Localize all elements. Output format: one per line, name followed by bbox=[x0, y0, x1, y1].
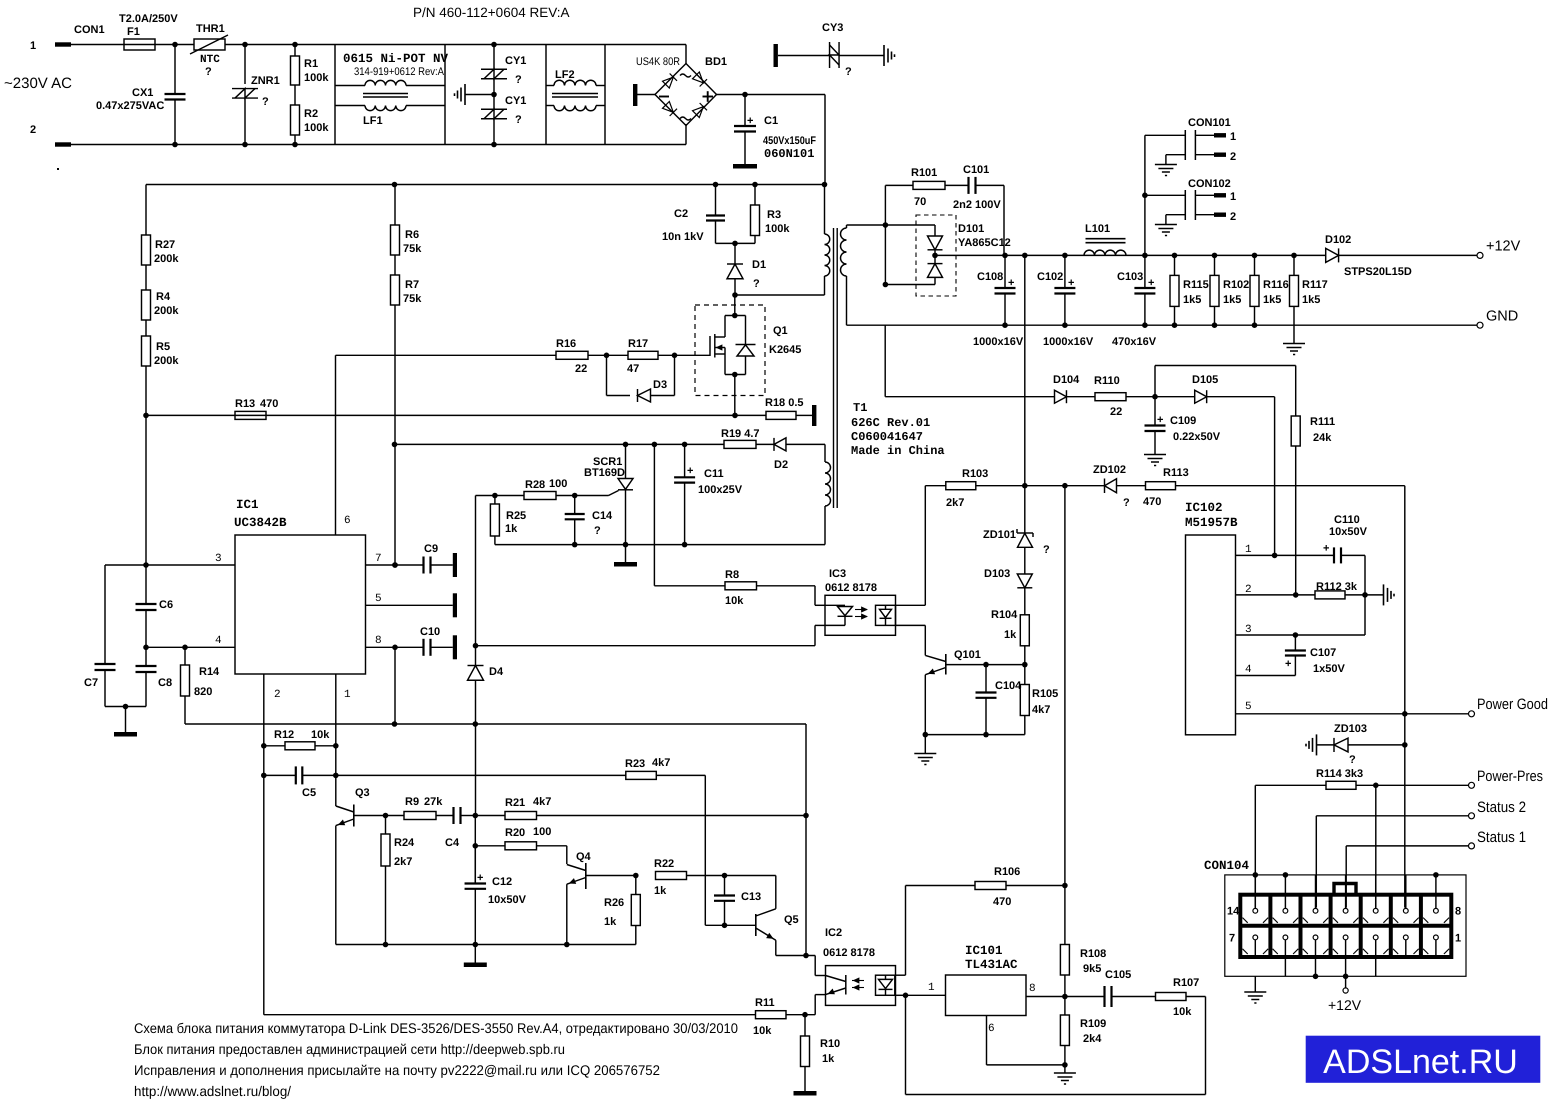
svg-text:R103: R103 bbox=[962, 468, 988, 480]
svg-text:?: ? bbox=[753, 278, 760, 290]
wire R20 to Q4 bbox=[537, 845, 567, 847]
svg-text:7: 7 bbox=[1229, 933, 1235, 945]
thermistor THR1 bbox=[194, 39, 225, 50]
svg-text:1k5: 1k5 bbox=[1223, 294, 1241, 306]
svg-text:C9: C9 bbox=[424, 543, 438, 555]
wire Q4 emitter down bbox=[566, 884, 568, 944]
wire HV+ bus bbox=[146, 184, 825, 186]
resistor R7 75k bbox=[394, 255, 396, 275]
ground bar of R10 bbox=[794, 1091, 817, 1096]
svg-text:LF1: LF1 bbox=[363, 115, 383, 127]
svg-text:C107: C107 bbox=[1310, 647, 1336, 659]
svg-text:F1: F1 bbox=[127, 26, 140, 38]
svg-text:100k: 100k bbox=[304, 72, 329, 84]
wire IC101 pin 8 bbox=[1026, 996, 1105, 998]
svg-text:UC3842B: UC3842B bbox=[234, 516, 287, 530]
svg-text:STPS20L15D: STPS20L15D bbox=[1344, 266, 1412, 278]
svg-text:27k: 27k bbox=[424, 796, 443, 808]
svg-text:THR1: THR1 bbox=[196, 23, 225, 35]
wire FB rail y1014 bbox=[264, 1014, 756, 1016]
svg-text:R19 4.7: R19 4.7 bbox=[721, 428, 760, 440]
connector CON104 cell chamfers bbox=[1243, 918, 1248, 923]
connector CON104 key tab bbox=[1334, 884, 1356, 895]
resistor R13 470 bbox=[235, 411, 266, 419]
svg-text:C103: C103 bbox=[1117, 271, 1143, 283]
svg-text:Made in China: Made in China bbox=[851, 444, 945, 458]
svg-text:+: + bbox=[477, 872, 483, 884]
svg-text:US4K 80R: US4K 80R bbox=[636, 56, 680, 68]
svg-text:Power Good: Power Good bbox=[1477, 696, 1548, 713]
svg-text:2: 2 bbox=[274, 689, 281, 701]
svg-text:R115: R115 bbox=[1183, 279, 1209, 291]
svg-text:R106: R106 bbox=[994, 866, 1020, 878]
svg-text:470x16V: 470x16V bbox=[1112, 336, 1157, 348]
wire R11 to IC2 bbox=[786, 1014, 815, 1016]
ground of Q101 rail bbox=[924, 735, 926, 754]
wire Q5 to IC2 bbox=[776, 955, 815, 957]
resistor R11 10k bbox=[756, 1011, 787, 1019]
svg-text:?: ? bbox=[1123, 497, 1130, 509]
ground bar of C7/C8 bbox=[125, 707, 127, 733]
wire bridge output to C1 and T1 bbox=[717, 94, 826, 96]
terminal bar at C9 bbox=[431, 564, 453, 566]
resistor R1 100k bbox=[294, 45, 296, 57]
diode D1 bbox=[734, 243, 736, 264]
svg-text:Q101: Q101 bbox=[954, 649, 981, 661]
wire D3 branch bbox=[606, 355, 608, 395]
svg-text:0612 8178: 0612 8178 bbox=[825, 582, 877, 594]
svg-text:C2: C2 bbox=[674, 208, 688, 220]
svg-text:Q3: Q3 bbox=[355, 787, 370, 799]
capacitor C14 bbox=[574, 496, 576, 515]
svg-text:CON102: CON102 bbox=[1188, 178, 1231, 190]
diode D103 bbox=[1017, 574, 1032, 588]
svg-text:?: ? bbox=[1349, 754, 1356, 766]
ground bar of rail y944 bbox=[474, 945, 476, 963]
connector CON104 pins bbox=[1254, 895, 1256, 909]
thyristor SCR1 BT169D bbox=[625, 444, 627, 478]
resistor R14 820 bbox=[184, 647, 186, 665]
resistor R3 100k bbox=[754, 185, 756, 206]
ground bar of SCR rail bbox=[625, 545, 627, 562]
svg-text:6: 6 bbox=[344, 515, 351, 527]
svg-text:R18 0.5: R18 0.5 bbox=[765, 397, 804, 409]
svg-text:10k: 10k bbox=[1173, 1006, 1192, 1018]
svg-text:10x50V: 10x50V bbox=[488, 894, 527, 906]
resistor R114 3k3 bbox=[1254, 785, 1256, 907]
wire CON104 outer loop bbox=[1225, 875, 1466, 976]
svg-text:10x50V: 10x50V bbox=[1329, 526, 1368, 538]
transistor Q4 bbox=[585, 863, 587, 889]
diode D4 bbox=[468, 665, 484, 667]
svg-text:R28: R28 bbox=[525, 479, 545, 491]
svg-text:ZNR1: ZNR1 bbox=[251, 75, 280, 87]
svg-text:Исправления и дополнения присы: Исправления и дополнения присылайте на п… bbox=[134, 1062, 660, 1078]
resistor R112 3k bbox=[1315, 591, 1345, 599]
diode D105 bbox=[1195, 390, 1207, 403]
inductor LF1 common-mode choke bbox=[365, 80, 406, 85]
wire GND rail stub to aux rail bbox=[884, 325, 886, 397]
svg-text:10k: 10k bbox=[753, 1025, 772, 1037]
wire Q101 gnd rail bbox=[925, 734, 1025, 736]
svg-text:D2: D2 bbox=[774, 459, 788, 471]
svg-text:ZD102: ZD102 bbox=[1093, 464, 1126, 476]
wire IC2 emitter out bbox=[815, 994, 825, 996]
svg-text:Power-Pres: Power-Pres bbox=[1477, 768, 1543, 785]
resistor R21 4k7 bbox=[475, 815, 505, 817]
svg-text:0612 8178: 0612 8178 bbox=[823, 947, 875, 959]
capacitor C11 100x25V bbox=[684, 444, 686, 477]
svg-text:R26: R26 bbox=[604, 897, 624, 909]
bridge arm diode top-right bbox=[692, 72, 707, 87]
svg-text:C109: C109 bbox=[1170, 415, 1196, 427]
resistor R4 200k bbox=[145, 265, 147, 290]
svg-text:R1: R1 bbox=[304, 58, 318, 70]
wire THR1 to LF1 bbox=[225, 44, 335, 46]
wire CON104 pin stubs above bbox=[1315, 875, 1317, 895]
svg-text:0.47x275VAC: 0.47x275VAC bbox=[96, 100, 164, 112]
transistor Q5 bbox=[755, 914, 757, 936]
svg-text:8: 8 bbox=[1455, 906, 1461, 918]
svg-text:10n 1kV: 10n 1kV bbox=[662, 231, 704, 243]
wire VREF rail to R16 bbox=[335, 355, 337, 535]
svg-text:CX1: CX1 bbox=[132, 87, 153, 99]
wire R21 column to IC2 bbox=[805, 724, 807, 956]
svg-text:24k: 24k bbox=[1313, 432, 1332, 444]
svg-text:0615 Ni-POT NV: 0615 Ni-POT NV bbox=[343, 52, 449, 66]
diode D2 bbox=[756, 443, 774, 445]
svg-text:2k7: 2k7 bbox=[394, 856, 412, 868]
svg-text:1k: 1k bbox=[604, 916, 617, 928]
bridge minus terminal bar bbox=[633, 84, 637, 106]
svg-text:C13: C13 bbox=[741, 891, 761, 903]
svg-text:1k5: 1k5 bbox=[1183, 294, 1201, 306]
IC U IC102 M51957B bbox=[1186, 535, 1236, 735]
wire CY1 box top bbox=[445, 44, 546, 46]
wire Status 1 bbox=[1345, 846, 1347, 908]
svg-text:100k: 100k bbox=[304, 122, 329, 134]
svg-text:R24: R24 bbox=[394, 837, 415, 849]
svg-text:C8: C8 bbox=[158, 677, 172, 689]
wire D105 to IC102 vcc bbox=[1207, 396, 1275, 398]
svg-text:+: + bbox=[1323, 543, 1329, 555]
ground of CON102 bbox=[1166, 214, 1185, 216]
diode D101 lower half bbox=[934, 255, 936, 263]
wire Q101 base node bbox=[946, 664, 1025, 666]
wire SCR ground rail bbox=[495, 544, 825, 546]
svg-text:LF2: LF2 bbox=[555, 69, 575, 81]
capacitor C10 bbox=[422, 639, 424, 656]
capacitor C13 bbox=[724, 876, 726, 896]
svg-text:?: ? bbox=[515, 114, 522, 126]
wire CY1 box right edge bbox=[545, 45, 547, 145]
resistor R103 2k7 bbox=[925, 485, 946, 487]
svg-text:200k: 200k bbox=[154, 253, 179, 265]
wire LF2 top lead bbox=[546, 85, 554, 87]
wire R107 feedback loop bbox=[1186, 996, 1206, 998]
capacitor C7 bbox=[104, 565, 106, 664]
transformer T1 aux winding bbox=[825, 462, 831, 506]
wire vref rail y724 bbox=[185, 723, 806, 725]
svg-text:1k5: 1k5 bbox=[1263, 294, 1281, 306]
svg-text:R3: R3 bbox=[767, 209, 781, 221]
wire LF1 bottom lead bbox=[335, 105, 365, 107]
svg-text:R7: R7 bbox=[405, 279, 419, 291]
svg-text:4: 4 bbox=[215, 635, 222, 647]
svg-text:ZD103: ZD103 bbox=[1334, 723, 1367, 735]
bridge arm diode top-left bbox=[662, 73, 677, 88]
wire +12V rail to CON101/CON102 bbox=[1144, 135, 1146, 255]
wire D4 to C4 node bbox=[475, 680, 477, 815]
diode D3 bbox=[637, 389, 639, 402]
resistor R20 100 bbox=[475, 845, 505, 847]
svg-text:8: 8 bbox=[1029, 983, 1036, 995]
bridge rectifier BD1 US4K 80R bbox=[685, 45, 687, 65]
svg-text:TL431AC: TL431AC bbox=[965, 958, 1018, 972]
svg-text:CON101: CON101 bbox=[1188, 117, 1231, 129]
wire LF1 top lead bbox=[335, 85, 365, 87]
wire C2/R3 junction bbox=[716, 242, 756, 244]
resistor R28 100 bbox=[495, 495, 524, 497]
wire aux rail y444 bbox=[395, 443, 725, 445]
optocoupler IC3 0612 8178 bbox=[825, 595, 896, 635]
svg-text:+: + bbox=[1157, 414, 1163, 426]
svg-text:1: 1 bbox=[344, 689, 351, 701]
wire aux sense rail bbox=[976, 485, 1105, 487]
svg-text:CY3: CY3 bbox=[822, 22, 843, 34]
wire Q5 collector bbox=[775, 876, 777, 909]
wire input box left edge bbox=[334, 45, 336, 145]
resistor R110 22 bbox=[1095, 393, 1126, 401]
resistor R16 22 bbox=[556, 351, 588, 359]
svg-text:M51957B: M51957B bbox=[1185, 516, 1238, 530]
svg-text:Q5: Q5 bbox=[784, 914, 799, 926]
svg-text:T2.0A/250V: T2.0A/250V bbox=[119, 13, 178, 25]
diode D101 upper half bbox=[934, 225, 936, 236]
resistor R101 70 bbox=[913, 181, 945, 189]
capacitor C104 bbox=[985, 665, 987, 693]
wire R21 to opto column bbox=[537, 815, 807, 817]
svg-text:6: 6 bbox=[988, 1023, 995, 1035]
wire R8 to IC3 anode bbox=[757, 585, 816, 587]
svg-text:C5: C5 bbox=[302, 787, 316, 799]
svg-text:R5: R5 bbox=[156, 341, 170, 353]
svg-text:470: 470 bbox=[993, 896, 1011, 908]
resistor R27 200k bbox=[142, 235, 151, 265]
svg-text:1k: 1k bbox=[505, 523, 518, 535]
wire current sense rail bbox=[146, 414, 735, 416]
svg-text:Status 1: Status 1 bbox=[1477, 829, 1526, 846]
IC3 LED arrows bbox=[855, 609, 867, 611]
zener ZD101 bbox=[1016, 529, 1018, 533]
svg-text:?: ? bbox=[594, 525, 601, 537]
wire R103 to IC3 collector bbox=[924, 486, 926, 606]
svg-text:1: 1 bbox=[928, 982, 935, 994]
capacitor C105 bbox=[1103, 986, 1105, 1007]
svg-text:70: 70 bbox=[914, 196, 926, 208]
wire Q3 base bbox=[354, 815, 386, 817]
svg-text:100: 100 bbox=[549, 478, 567, 490]
svg-text:C14: C14 bbox=[592, 510, 613, 522]
svg-text:+12V: +12V bbox=[1486, 239, 1521, 255]
bridge arm diode bottom-left bbox=[662, 101, 677, 116]
svg-text:C7: C7 bbox=[84, 677, 98, 689]
IC3 LED bbox=[825, 604, 845, 606]
capacitor CY1 lower bbox=[493, 79, 495, 110]
svg-text:R14: R14 bbox=[199, 666, 220, 678]
wire R114 to Power-Pres terminal bbox=[1356, 784, 1469, 786]
svg-text:75k: 75k bbox=[403, 243, 422, 255]
wire bus to R27 bbox=[145, 185, 147, 236]
wire LF2 bottom lead bbox=[546, 105, 554, 107]
svg-text:R16: R16 bbox=[556, 338, 576, 350]
svg-text:D103: D103 bbox=[984, 568, 1010, 580]
svg-text:060N101: 060N101 bbox=[764, 147, 814, 161]
svg-text:626C Rev.01: 626C Rev.01 bbox=[851, 416, 930, 430]
wire IC2 LED cathode to TL431 bbox=[895, 994, 906, 996]
resistor R2 100k bbox=[294, 85, 296, 105]
capacitor C9 bbox=[422, 557, 424, 574]
svg-text:IC2: IC2 bbox=[825, 927, 842, 939]
svg-text:D104: D104 bbox=[1053, 374, 1080, 386]
wire emitter ground rail y944 bbox=[336, 944, 636, 946]
wire F1 to THR1 bbox=[155, 44, 194, 46]
svg-text:K2645: K2645 bbox=[769, 344, 801, 356]
transistor Q101 bbox=[945, 654, 947, 675]
svg-text:22: 22 bbox=[575, 363, 587, 375]
wire Q5 base bbox=[705, 924, 756, 926]
capacitor C12 10x50V bbox=[474, 846, 476, 884]
wire Q101 emitter to gnd rail bbox=[924, 675, 926, 735]
connector CON104 body bbox=[1240, 895, 1451, 957]
svg-text:?: ? bbox=[205, 66, 212, 78]
svg-text:C105: C105 bbox=[1105, 969, 1131, 981]
svg-text:?: ? bbox=[262, 96, 269, 108]
svg-text:+: + bbox=[747, 115, 753, 127]
wire CY1 box left edge bbox=[444, 45, 446, 145]
svg-text:R23: R23 bbox=[625, 758, 645, 770]
wire IC2 LED anode bbox=[895, 974, 906, 976]
svg-text:2: 2 bbox=[1230, 151, 1236, 163]
wire +12V rail bbox=[935, 254, 1326, 256]
svg-text:450Vx150uF: 450Vx150uF bbox=[763, 135, 816, 147]
svg-text:470: 470 bbox=[260, 398, 278, 410]
svg-text:Status 2: Status 2 bbox=[1477, 799, 1526, 816]
resistor R106 470 bbox=[906, 885, 976, 887]
resistor R9 27k bbox=[386, 815, 405, 817]
resistor R6 75k bbox=[394, 185, 396, 226]
wire SCR gate bbox=[575, 495, 609, 497]
resistor R5 200k bbox=[145, 320, 147, 336]
svg-text:P/N 460-112+0604 REV:A: P/N 460-112+0604 REV:A bbox=[413, 5, 569, 20]
capacitor C108 1000x16V bbox=[1004, 255, 1006, 288]
capacitor C1 450Vx150uF bbox=[744, 95, 746, 127]
resistor R25 1k bbox=[494, 496, 496, 505]
resistor R24 2k7 bbox=[385, 816, 387, 835]
wire snubber corner to secondary bbox=[884, 185, 886, 284]
bridge arm diode bottom-right bbox=[692, 103, 707, 118]
resistor R19 4.7 bbox=[724, 440, 756, 448]
capacitor C109 0.22x50V bbox=[1154, 397, 1156, 426]
svg-text:R117: R117 bbox=[1302, 279, 1328, 291]
wire Q1 drain bbox=[734, 295, 736, 316]
wire R23 to Q5 base column bbox=[656, 774, 705, 776]
wire R7 down to R19 node bbox=[394, 305, 396, 565]
capacitor C5 bbox=[264, 774, 296, 776]
svg-text:L101: L101 bbox=[1085, 223, 1110, 235]
svg-text:5: 5 bbox=[1245, 701, 1252, 713]
svg-text:10k: 10k bbox=[311, 729, 330, 741]
svg-text:R20: R20 bbox=[505, 827, 525, 839]
bridge polarity marks bbox=[680, 74, 691, 77]
svg-text:C1: C1 bbox=[764, 115, 778, 127]
svg-text:R2: R2 bbox=[304, 108, 318, 120]
svg-text:100x25V: 100x25V bbox=[698, 484, 743, 496]
IC U IC101 TL431AC bbox=[946, 975, 1027, 1016]
svg-text:R108: R108 bbox=[1080, 948, 1106, 960]
wire secondary top to D101 bbox=[847, 224, 936, 226]
svg-text:4: 4 bbox=[1245, 664, 1252, 676]
svg-text:C11: C11 bbox=[704, 468, 724, 480]
svg-text:5: 5 bbox=[375, 593, 382, 605]
capacitor C6 bbox=[145, 565, 147, 604]
svg-text:R114 3k3: R114 3k3 bbox=[1316, 768, 1363, 780]
svg-text:BD1: BD1 bbox=[705, 56, 727, 68]
svg-text:470: 470 bbox=[1143, 496, 1161, 508]
svg-text:R21: R21 bbox=[505, 797, 525, 809]
svg-text:R6: R6 bbox=[405, 229, 419, 241]
svg-text:1000x16V: 1000x16V bbox=[973, 336, 1024, 348]
resistor R117 1k5 bbox=[1293, 255, 1295, 275]
svg-text:3: 3 bbox=[215, 553, 222, 565]
svg-text:R101: R101 bbox=[911, 167, 937, 179]
svg-text:IC3: IC3 bbox=[829, 568, 846, 580]
svg-text:R9: R9 bbox=[405, 796, 419, 808]
resistor R10 1k bbox=[804, 1015, 806, 1036]
diode D101 dual schottky YA865C12 dashed box bbox=[916, 215, 956, 296]
svg-text:R10: R10 bbox=[820, 1038, 840, 1050]
resistor R116 1k5 bbox=[1254, 255, 1256, 275]
svg-text:7: 7 bbox=[375, 553, 382, 565]
wire bridge box top bbox=[546, 44, 605, 46]
wire bridge box left edge bbox=[604, 45, 606, 145]
wire Q101 collector from IC3 bbox=[924, 625, 926, 655]
wire R17 to gate node bbox=[658, 354, 675, 356]
svg-text:100k: 100k bbox=[765, 223, 790, 235]
svg-text:Блок питания предоставлен адми: Блок питания предоставлен администрацией… bbox=[134, 1041, 565, 1057]
inductor L101 bbox=[1084, 250, 1126, 255]
ground chassis tap for CY1 bbox=[491, 92, 497, 98]
svg-text:0.22x50V: 0.22x50V bbox=[1173, 431, 1221, 443]
svg-text:200k: 200k bbox=[154, 305, 179, 317]
svg-text:Q1: Q1 bbox=[773, 325, 788, 337]
svg-text:+: + bbox=[687, 465, 693, 477]
wire C105 to R107 bbox=[1112, 996, 1156, 998]
resistor R22 1k bbox=[656, 872, 687, 880]
wire Q1 source to current sense bbox=[734, 375, 736, 416]
terminal Status 2 bbox=[1469, 813, 1475, 819]
svg-text:IC101: IC101 bbox=[965, 944, 1003, 958]
svg-text:NTC: NTC bbox=[200, 54, 220, 66]
wire ZD101 node to R108 bbox=[1064, 486, 1066, 886]
terminal bar R18 return bbox=[812, 405, 816, 426]
ground right of R112 bbox=[1383, 584, 1385, 605]
svg-text:D1: D1 bbox=[752, 259, 766, 271]
svg-text:CON104: CON104 bbox=[1204, 859, 1250, 873]
wire R113 to power good column bbox=[1176, 485, 1405, 487]
svg-text:D3: D3 bbox=[653, 379, 667, 391]
svg-text:820: 820 bbox=[194, 686, 212, 698]
